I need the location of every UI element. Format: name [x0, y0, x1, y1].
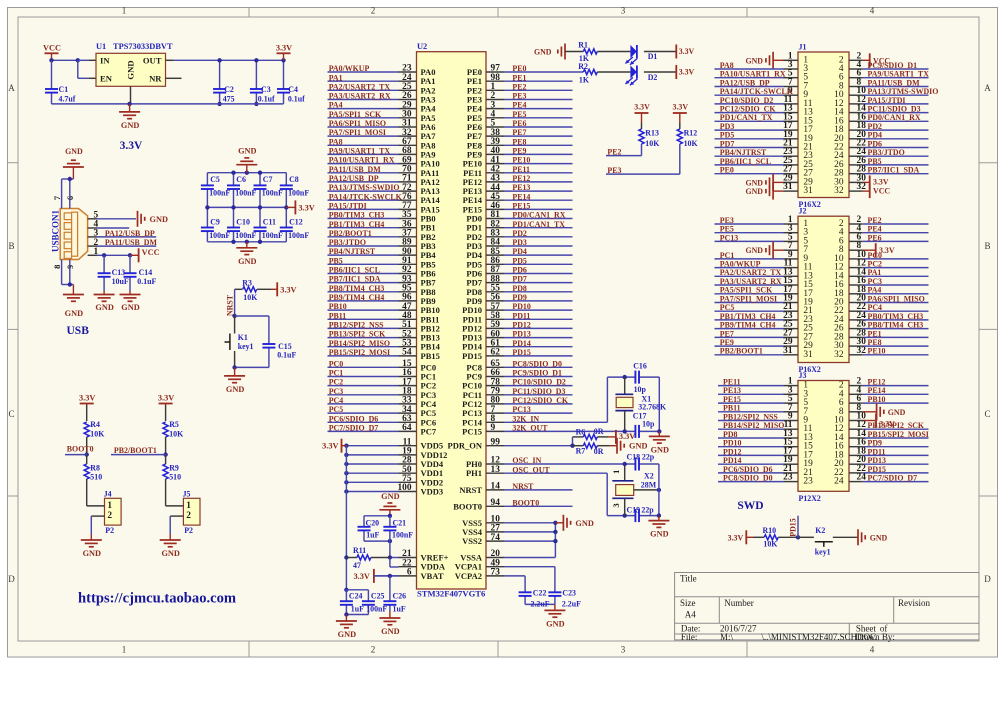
svg-text:C12: C12 — [289, 218, 303, 227]
svg-text:4: 4 — [870, 6, 875, 16]
svg-text:10K: 10K — [169, 429, 184, 438]
svg-text:Number: Number — [724, 598, 754, 608]
svg-text:PE12: PE12 — [868, 378, 886, 387]
svg-text:3.3V: 3.3V — [873, 177, 889, 186]
svg-text:PE4: PE4 — [868, 225, 882, 234]
svg-text:C20: C20 — [366, 519, 380, 528]
svg-text:10K: 10K — [684, 139, 699, 148]
svg-text:PD13: PD13 — [868, 456, 886, 465]
svg-text:BOOT0: BOOT0 — [453, 501, 482, 511]
svg-text:R10: R10 — [763, 526, 777, 535]
svg-text:PA5/SPI1_SCK: PA5/SPI1_SCK — [720, 286, 773, 295]
svg-text:3: 3 — [621, 6, 626, 16]
svg-text:74: 74 — [491, 533, 501, 543]
svg-text:31: 31 — [783, 346, 793, 356]
svg-text:GND: GND — [65, 309, 83, 318]
svg-text:VDD3: VDD3 — [421, 487, 444, 497]
svg-text:VCPA2: VCPA2 — [455, 571, 482, 581]
svg-text:GND: GND — [745, 246, 763, 255]
svg-text:PD4: PD4 — [512, 247, 527, 256]
svg-text:PE8: PE8 — [868, 338, 882, 347]
svg-text:PB15/SPI2_MOSI: PB15/SPI2_MOSI — [329, 348, 390, 357]
svg-text:3.3V: 3.3V — [276, 43, 292, 52]
svg-text:0.1uf: 0.1uf — [288, 94, 305, 103]
svg-text:M:\: M:\ — [720, 632, 734, 642]
svg-text:OSC_IN: OSC_IN — [512, 456, 541, 465]
svg-text:P12X2: P12X2 — [799, 494, 821, 503]
svg-text:PB2/BOOT1: PB2/BOOT1 — [720, 347, 763, 356]
svg-text:PE8: PE8 — [512, 137, 526, 146]
svg-text:PC1: PC1 — [720, 251, 735, 260]
svg-text:PA8: PA8 — [720, 61, 734, 70]
svg-text:IN: IN — [100, 55, 110, 65]
svg-text:PE5: PE5 — [720, 225, 734, 234]
svg-text:3: 3 — [611, 503, 621, 507]
svg-text:PC7/SDIO_D7: PC7/SDIO_D7 — [329, 424, 379, 433]
svg-text:GND: GND — [126, 60, 136, 79]
svg-text:3.3V: 3.3V — [120, 140, 143, 152]
svg-text:https://cjmcu.taobao.com: https://cjmcu.taobao.com — [78, 591, 236, 607]
svg-text:1uF: 1uF — [393, 605, 406, 614]
svg-text:NRST: NRST — [226, 294, 235, 316]
svg-text:TPS73033DBVT: TPS73033DBVT — [113, 42, 173, 51]
svg-text:C25: C25 — [371, 591, 385, 600]
svg-text:2.2uF: 2.2uF — [531, 599, 550, 608]
svg-text:C10: C10 — [236, 218, 250, 227]
svg-text:0.1uF: 0.1uF — [277, 351, 296, 360]
svg-text:PB0/TIM3_CH3: PB0/TIM3_CH3 — [329, 211, 385, 220]
svg-text:PB12/SPI2_NSS: PB12/SPI2_NSS — [723, 412, 778, 421]
svg-text:PE2: PE2 — [607, 148, 621, 157]
svg-text:3.3V: 3.3V — [679, 68, 695, 77]
svg-text:K2: K2 — [815, 526, 825, 535]
svg-text:PA15/JTDI: PA15/JTDI — [868, 96, 906, 105]
svg-text:PA2/USART2_TX: PA2/USART2_TX — [720, 268, 782, 277]
svg-text:GND: GND — [121, 121, 139, 130]
svg-text:PD15: PD15 — [512, 348, 530, 357]
svg-text:PE9: PE9 — [512, 147, 526, 156]
svg-text:R12: R12 — [684, 129, 698, 138]
svg-text:2: 2 — [371, 6, 376, 16]
svg-text:PA2/USART2_TX: PA2/USART2_TX — [329, 82, 391, 91]
svg-text:PD11: PD11 — [868, 447, 886, 456]
svg-text:PD12: PD12 — [512, 321, 530, 330]
svg-text:4.7uf: 4.7uf — [59, 94, 76, 103]
svg-text:100nF: 100nF — [235, 188, 256, 197]
svg-text:PB13/SPI2_SCK: PB13/SPI2_SCK — [868, 421, 925, 430]
svg-text:62: 62 — [491, 348, 501, 358]
svg-text:PC10/SDIO_D2: PC10/SDIO_D2 — [720, 96, 774, 105]
svg-text:2: 2 — [107, 511, 112, 521]
svg-text:PC4: PC4 — [329, 396, 344, 405]
svg-text:OSC_OUT: OSC_OUT — [512, 465, 550, 474]
svg-text:94: 94 — [491, 498, 501, 508]
svg-text:PD14: PD14 — [512, 339, 530, 348]
svg-text:31: 31 — [803, 186, 813, 196]
svg-text:PD9: PD9 — [868, 439, 883, 448]
svg-text:PA3/USART2_RX: PA3/USART2_RX — [329, 92, 391, 101]
svg-text:100nF: 100nF — [262, 188, 283, 197]
svg-text:C2: C2 — [224, 85, 234, 94]
svg-text:23: 23 — [803, 477, 813, 487]
svg-text:A4: A4 — [685, 610, 696, 620]
svg-text:PB4/NJTRST: PB4/NJTRST — [720, 148, 767, 157]
svg-text:R5: R5 — [169, 420, 179, 429]
svg-text:PA7/SPI1_MOSI: PA7/SPI1_MOSI — [329, 128, 386, 137]
svg-text:0.1uf: 0.1uf — [258, 94, 275, 103]
svg-text:PB7/IIC1_SDA: PB7/IIC1_SDA — [868, 166, 920, 175]
svg-text:PD3: PD3 — [512, 238, 527, 247]
svg-text:GND: GND — [381, 492, 399, 501]
svg-text:D2: D2 — [648, 73, 658, 82]
svg-text:BOOT0: BOOT0 — [67, 445, 94, 454]
svg-text:PE14: PE14 — [512, 192, 530, 201]
svg-text:PC6/SDIO_D6: PC6/SDIO_D6 — [329, 414, 379, 423]
svg-text:EN: EN — [100, 73, 113, 83]
svg-text:PA11/USB_DM: PA11/USB_DM — [868, 78, 921, 87]
svg-text:32.768K: 32.768K — [638, 403, 667, 412]
svg-text:GND: GND — [575, 519, 593, 528]
svg-text:A: A — [8, 83, 15, 93]
svg-text:28M: 28M — [641, 481, 657, 490]
svg-text:PA9/USART1_TX: PA9/USART1_TX — [868, 70, 930, 79]
svg-text:GND: GND — [546, 619, 564, 628]
svg-text:J5: J5 — [183, 490, 191, 499]
svg-text:PA10/USART1_RX: PA10/USART1_RX — [329, 156, 395, 165]
svg-text:2: 2 — [371, 644, 376, 654]
svg-text:PC3: PC3 — [868, 277, 883, 286]
svg-text:3.3V: 3.3V — [354, 572, 370, 581]
svg-text:PA1: PA1 — [329, 73, 343, 82]
svg-text:1: 1 — [122, 644, 127, 654]
svg-text:GND: GND — [629, 442, 647, 451]
svg-text:PA10/USART1_RX: PA10/USART1_RX — [720, 70, 786, 79]
svg-text:3.3V: 3.3V — [619, 432, 635, 441]
svg-text:R9: R9 — [169, 463, 179, 472]
svg-text:GND: GND — [226, 385, 244, 394]
svg-text:PA11/USB_DM: PA11/USB_DM — [105, 238, 158, 247]
svg-text:73: 73 — [491, 568, 501, 578]
svg-text:100nF: 100nF — [392, 530, 413, 539]
svg-text:3.3V: 3.3V — [634, 103, 650, 112]
svg-text:PA9/USART1_TX: PA9/USART1_TX — [329, 147, 391, 156]
svg-text:PB2/BOOT1: PB2/BOOT1 — [329, 229, 372, 238]
svg-text:PB11: PB11 — [723, 404, 741, 413]
svg-text:22p: 22p — [641, 506, 654, 515]
svg-text:key1: key1 — [238, 342, 254, 351]
svg-text:GND: GND — [745, 187, 763, 196]
svg-text:PB0/TIM3_CH3: PB0/TIM3_CH3 — [868, 312, 924, 321]
svg-text:GND: GND — [83, 549, 101, 558]
svg-text:0R: 0R — [594, 427, 604, 436]
svg-text:54: 54 — [402, 348, 412, 358]
svg-text:C: C — [984, 409, 990, 419]
svg-text:B: B — [984, 241, 990, 251]
svg-text:PC12/SDIO_CK: PC12/SDIO_CK — [512, 396, 569, 405]
svg-text:Revision: Revision — [898, 598, 931, 608]
svg-text:R3: R3 — [242, 279, 252, 288]
svg-text:10p: 10p — [642, 419, 655, 428]
svg-text:VBAT: VBAT — [421, 571, 444, 581]
svg-text:PE11: PE11 — [723, 378, 741, 387]
svg-text:PC2: PC2 — [868, 260, 883, 269]
svg-text:NRST: NRST — [512, 482, 534, 491]
svg-text:PE15: PE15 — [723, 395, 741, 404]
svg-text:PA7/SPI1_MOSI: PA7/SPI1_MOSI — [720, 294, 777, 303]
svg-text:3.3V: 3.3V — [79, 394, 95, 403]
svg-text:PC8/SDIO_D0: PC8/SDIO_D0 — [512, 359, 562, 368]
svg-text:475: 475 — [223, 94, 235, 103]
svg-text:C14: C14 — [139, 268, 153, 277]
svg-text:1: 1 — [186, 501, 191, 511]
svg-text:PA1: PA1 — [868, 268, 882, 277]
svg-text:C8: C8 — [289, 175, 299, 184]
svg-text:PD4: PD4 — [868, 131, 883, 140]
svg-text:STM32F407VGT6: STM32F407VGT6 — [417, 589, 486, 599]
svg-text:PE6: PE6 — [868, 233, 882, 242]
svg-text:PC11/SDIO_D3: PC11/SDIO_D3 — [868, 105, 921, 114]
svg-text:99: 99 — [491, 437, 501, 447]
svg-text:PC4: PC4 — [868, 303, 883, 312]
svg-text:C13: C13 — [112, 268, 126, 277]
svg-text:PE10: PE10 — [868, 347, 886, 356]
svg-text:10K: 10K — [90, 429, 105, 438]
svg-text:PD6: PD6 — [512, 266, 527, 275]
svg-text:PC0: PC0 — [868, 251, 883, 260]
svg-text:PA0/WKUP: PA0/WKUP — [720, 260, 761, 269]
svg-text:PB10: PB10 — [329, 302, 347, 311]
svg-text:X2: X2 — [644, 472, 654, 481]
svg-text:B: B — [8, 241, 14, 251]
svg-text:PE2: PE2 — [512, 82, 526, 91]
svg-text:PD1/CAN1_TX: PD1/CAN1_TX — [720, 113, 773, 122]
svg-text:GND: GND — [95, 303, 113, 312]
svg-text:100nF: 100nF — [288, 231, 309, 240]
svg-text:J4: J4 — [104, 490, 112, 499]
svg-text:R4: R4 — [90, 420, 100, 429]
svg-text:PE11: PE11 — [512, 165, 530, 174]
svg-text:R6: R6 — [576, 427, 586, 436]
svg-text:23: 23 — [783, 473, 793, 483]
svg-text:C: C — [8, 409, 14, 419]
svg-text:PD1/CAN1_TX: PD1/CAN1_TX — [512, 220, 565, 229]
svg-text:PH1: PH1 — [466, 468, 482, 478]
svg-text:GND: GND — [650, 530, 668, 539]
svg-text:USB: USB — [67, 325, 90, 337]
svg-text:100nF: 100nF — [209, 188, 230, 197]
svg-text:0.1uF: 0.1uF — [137, 277, 156, 286]
svg-text:R13: R13 — [645, 129, 659, 138]
svg-text:SWD: SWD — [737, 500, 763, 512]
svg-text:3.3V: 3.3V — [673, 103, 689, 112]
svg-text:GND: GND — [65, 147, 83, 156]
svg-text:PA4: PA4 — [868, 286, 882, 295]
svg-text:PD10: PD10 — [512, 302, 530, 311]
svg-text:3.3V: 3.3V — [728, 533, 744, 542]
svg-text:PB6/IIC1_SCL: PB6/IIC1_SCL — [720, 157, 771, 166]
svg-text:PA11/USB_DM: PA11/USB_DM — [329, 165, 382, 174]
svg-text:PE5: PE5 — [512, 110, 526, 119]
svg-text:PB4/NJTRST: PB4/NJTRST — [329, 247, 376, 256]
svg-text:C5: C5 — [210, 175, 220, 184]
svg-text:100nF: 100nF — [288, 188, 309, 197]
svg-text:3.3V: 3.3V — [280, 285, 296, 294]
svg-text:PA12/USB_DP: PA12/USB_DP — [329, 174, 379, 183]
svg-text:32: 32 — [834, 186, 844, 196]
svg-text:J2: J2 — [799, 207, 807, 216]
svg-text:P2: P2 — [105, 526, 114, 535]
svg-text:PC9/SDIO_D1: PC9/SDIO_D1 — [512, 369, 562, 378]
svg-text:10K: 10K — [243, 293, 258, 302]
svg-text:100nF: 100nF — [235, 231, 256, 240]
svg-text:0R: 0R — [594, 447, 604, 456]
svg-text:3: 3 — [621, 644, 626, 654]
svg-text:File:: File: — [681, 632, 698, 642]
svg-text:NRST: NRST — [459, 485, 482, 495]
svg-text:VCC: VCC — [43, 43, 61, 52]
svg-text:PDR_ON: PDR_ON — [448, 441, 483, 451]
svg-text:PB14/SPI2_MISO: PB14/SPI2_MISO — [723, 421, 784, 430]
svg-text:24: 24 — [834, 477, 844, 487]
svg-text:U2: U2 — [417, 42, 427, 51]
svg-text:PE3: PE3 — [512, 92, 526, 101]
svg-text:R11: R11 — [353, 546, 366, 555]
svg-text:C19: C19 — [627, 506, 641, 515]
svg-text:PA3/USART2_RX: PA3/USART2_RX — [720, 277, 782, 286]
svg-text:BOOT0: BOOT0 — [512, 498, 539, 507]
svg-text:PE15: PE15 — [512, 202, 530, 211]
svg-text:C18: C18 — [627, 453, 641, 462]
svg-text:PC6/SDIO_D6: PC6/SDIO_D6 — [723, 465, 773, 474]
svg-text:PD0/CAN1_RX: PD0/CAN1_RX — [512, 211, 565, 220]
svg-text:14: 14 — [491, 482, 501, 492]
svg-text:PA6/SPI1_MISO: PA6/SPI1_MISO — [329, 119, 386, 128]
svg-text:Title: Title — [680, 574, 697, 584]
svg-text:PD13: PD13 — [512, 330, 530, 339]
svg-text:PE9: PE9 — [720, 338, 734, 347]
svg-text:USBCON1: USBCON1 — [50, 210, 60, 253]
svg-text:1: 1 — [107, 501, 112, 511]
svg-text:1uF: 1uF — [366, 530, 379, 539]
svg-text:GND: GND — [534, 48, 552, 57]
svg-text:PE3: PE3 — [720, 216, 734, 225]
svg-text:3.3V: 3.3V — [158, 394, 174, 403]
svg-text:2: 2 — [186, 511, 191, 521]
svg-text:PC5: PC5 — [720, 303, 735, 312]
svg-text:PE14: PE14 — [868, 386, 886, 395]
svg-text:C22: C22 — [533, 589, 547, 598]
svg-text:PD2: PD2 — [868, 122, 883, 131]
svg-text:6: 6 — [407, 568, 412, 578]
svg-text:PB9/TIM4_CH4: PB9/TIM4_CH4 — [720, 321, 776, 330]
svg-text:GND: GND — [745, 178, 763, 187]
svg-text:C26: C26 — [393, 591, 407, 600]
svg-text:C24: C24 — [349, 591, 363, 600]
svg-text:PC11/SDIO_D3: PC11/SDIO_D3 — [512, 387, 565, 396]
svg-text:PE0: PE0 — [512, 64, 526, 73]
svg-text:P2: P2 — [184, 526, 193, 535]
svg-text:PB5: PB5 — [868, 157, 882, 166]
svg-text:PB14/SPI2_MISO: PB14/SPI2_MISO — [329, 339, 390, 348]
svg-text:PC1: PC1 — [329, 369, 344, 378]
svg-text:1: 1 — [611, 470, 621, 474]
svg-text:C9: C9 — [210, 218, 220, 227]
svg-text:31: 31 — [783, 182, 793, 192]
svg-text:PE0: PE0 — [467, 67, 482, 77]
svg-text:PD7: PD7 — [512, 275, 527, 284]
svg-text:PB15/SPI2_MOSI: PB15/SPI2_MOSI — [868, 430, 929, 439]
svg-text:C16: C16 — [633, 362, 647, 371]
svg-text:PB7/IIC1_SDA: PB7/IIC1_SDA — [329, 275, 381, 284]
svg-text:PD7: PD7 — [720, 139, 735, 148]
svg-text:PD8: PD8 — [512, 284, 527, 293]
svg-text:PD12: PD12 — [723, 447, 741, 456]
svg-text:D: D — [984, 574, 991, 584]
svg-text:K1: K1 — [238, 333, 248, 342]
svg-text:VSS2: VSS2 — [462, 536, 482, 546]
svg-text:J3: J3 — [799, 371, 807, 380]
svg-text:PD0/CAN1_RX: PD0/CAN1_RX — [868, 113, 921, 122]
svg-text:R8: R8 — [90, 463, 100, 472]
svg-text:PC15: PC15 — [462, 426, 482, 436]
svg-text:PE1: PE1 — [512, 73, 526, 82]
svg-text:10uF: 10uF — [112, 277, 129, 286]
svg-text:Size: Size — [680, 598, 696, 608]
svg-text:PE7: PE7 — [720, 329, 734, 338]
svg-text:PB10: PB10 — [868, 395, 886, 404]
svg-text:PC8/SDIO_D0: PC8/SDIO_D0 — [723, 474, 773, 483]
svg-text:C3: C3 — [261, 85, 271, 94]
svg-text:PD15: PD15 — [788, 518, 797, 536]
svg-text:32K_IN: 32K_IN — [512, 414, 539, 423]
svg-text:3.3V: 3.3V — [679, 47, 695, 56]
svg-text:PB1/TIM3_CH4: PB1/TIM3_CH4 — [329, 220, 385, 229]
svg-text:GND: GND — [121, 303, 139, 312]
svg-text:PE4: PE4 — [512, 101, 526, 110]
svg-text:PB6/IIC1_SCL: PB6/IIC1_SCL — [329, 266, 380, 275]
svg-text:PB13/SPI2_SCK: PB13/SPI2_SCK — [329, 330, 386, 339]
svg-text:D1: D1 — [648, 52, 658, 61]
svg-text:10p: 10p — [634, 385, 647, 394]
svg-text:GND: GND — [150, 215, 168, 224]
svg-text:9: 9 — [491, 423, 496, 433]
svg-text:PD11: PD11 — [512, 311, 530, 320]
svg-text:PA8: PA8 — [329, 137, 343, 146]
svg-text:PD10: PD10 — [723, 439, 741, 448]
svg-text:PC2: PC2 — [329, 378, 344, 387]
svg-text:PD15: PD15 — [462, 351, 482, 361]
svg-text:47: 47 — [353, 561, 361, 570]
svg-text:PB12/SPI2_NSS: PB12/SPI2_NSS — [329, 321, 384, 330]
svg-text:A: A — [984, 83, 991, 93]
svg-text:PE3: PE3 — [607, 166, 621, 175]
svg-text:PA14/JTCK-SWCLK: PA14/JTCK-SWCLK — [329, 192, 403, 201]
svg-text:C23: C23 — [562, 589, 576, 598]
svg-text:PA13/JTMS-SWDIO: PA13/JTMS-SWDIO — [329, 183, 400, 192]
svg-text:PD8: PD8 — [723, 430, 738, 439]
svg-text:PE12: PE12 — [512, 174, 530, 183]
svg-text:J1: J1 — [799, 42, 807, 51]
svg-text:PE0: PE0 — [720, 166, 734, 175]
svg-text:PA13/JTMS-SWDIO: PA13/JTMS-SWDIO — [868, 87, 939, 96]
svg-text:PA4: PA4 — [329, 101, 343, 110]
svg-text:100nF: 100nF — [209, 231, 230, 240]
svg-text:PB11: PB11 — [329, 311, 347, 320]
svg-text:R1: R1 — [578, 41, 588, 50]
svg-text:PA0/WKUP: PA0/WKUP — [329, 64, 370, 73]
svg-text:100nF: 100nF — [262, 231, 283, 240]
svg-text:PB8/TIM4_CH3: PB8/TIM4_CH3 — [329, 284, 385, 293]
